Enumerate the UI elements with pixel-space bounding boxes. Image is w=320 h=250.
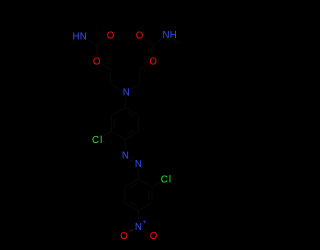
svg-text:C: C [161,175,168,186]
bond NH-CH3 (right methyl) [170,37,180,44]
atom label O (left ester oxygen) [92,56,102,67]
atom label NH (right carbamate nitrogen) [161,30,178,41]
bond C3-Cl ring1 [100,131,112,137]
svg-text:+: + [143,219,147,226]
atom label O (left carbonyl oxygen) [106,31,116,42]
bond CH3-NH (left methyl) [70,38,80,44]
bond NH-C carbamate left [87,39,97,46]
atom label N (central amine nitrogen) [122,87,131,98]
ring2 double bond C6=C1 [125,179,139,188]
bond O-C ester right [152,45,154,56]
double bond N=O nitro [142,228,151,235]
ring1 bond C1-C2 [111,108,125,116]
bond CH2-CH2 right [139,69,141,85]
atom label Cl (ring2 chlorine) [159,175,173,186]
ring2 bond C5-C6 [124,187,126,203]
ring1 bond C5-C6 [138,116,140,132]
svg-text:N: N [135,159,142,170]
bond N-C1 aniline [124,97,127,108]
atom label O (nitro double-bond oxygen) [149,231,159,242]
bond N-CH2 right [130,84,140,89]
svg-text:H: H [73,31,80,42]
svg-text:O: O [120,231,128,242]
ring2 double bond C2=C3 [149,187,152,203]
bond C-O ester left [96,45,98,56]
bond C-NH carbamate right [153,37,162,45]
ring2 bond C3-C4 [138,203,152,211]
ring1 double bond C6=C1 [125,108,139,117]
atom label Cl (ring1 chlorine) [91,135,105,146]
ring2 bond C1-C2 [138,179,152,187]
atom label N+ (nitro nitrogen with plus charge) [134,219,147,233]
azo double bond N=N [129,156,136,162]
svg-text:N: N [123,88,130,99]
bond O-CH2 left [101,63,111,69]
svg-text:l: l [100,135,102,146]
bond N-O(-) nitro [128,229,135,233]
svg-text:O: O [136,31,144,42]
svg-text:O: O [107,31,115,42]
bond CH2-N left [110,84,122,90]
svg-text:N: N [80,31,87,42]
atom label O (right carbonyl oxygen) [135,31,145,42]
bond C4-N nitro [137,211,139,222]
atom label HN (left carbamate nitrogen) [71,31,88,42]
svg-text:−: − [129,228,133,235]
ring1 double bond C4=C5 [125,130,139,139]
bond N-C1 ring2 [137,168,139,179]
svg-text:N: N [122,151,129,162]
svg-text:H: H [170,30,177,41]
svg-text:N: N [135,222,142,233]
atom label O (right ester oxygen) [148,56,158,67]
double bond C=O left carbonyl [96,37,108,47]
svg-text:O: O [150,231,158,242]
atom label N (azo nitrogen 2) [134,159,143,170]
bond CH2-O right [140,63,150,69]
atom label N (azo nitrogen 1) [121,150,130,161]
svg-text:N: N [163,30,170,41]
svg-text:l: l [169,175,171,186]
bond C4-N azo [124,139,126,150]
bond CH2-CH2 left [109,69,111,85]
ring1 double bond C2=C3 [111,116,114,132]
svg-text:C: C [92,135,99,146]
atom label O- (nitro oxygen with minus charge) [120,228,133,242]
bond C2-Cl ring2 [152,182,160,187]
svg-text:O: O [93,57,101,68]
svg-text:O: O [149,57,157,68]
ring2 double bond C4=C5 [125,202,139,211]
double bond C=O right carbonyl [142,37,154,47]
ring1 bond C3-C4 [111,131,125,139]
